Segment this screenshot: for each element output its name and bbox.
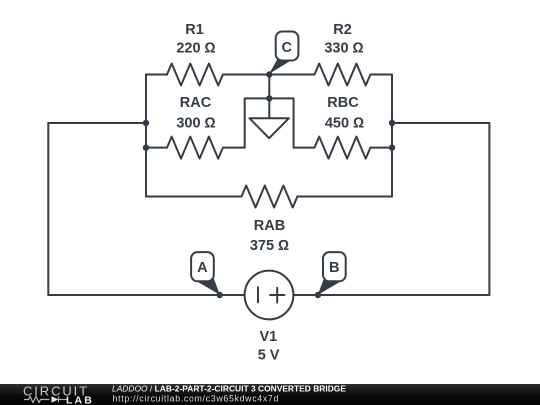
node dot left stub xyxy=(143,120,149,126)
node B box xyxy=(323,252,346,281)
voltage source V1 xyxy=(245,271,294,320)
wire RAB row xyxy=(146,196,392,198)
node dot right stub xyxy=(389,120,395,126)
wire branch under C xyxy=(245,98,294,147)
wire top row xyxy=(146,74,392,76)
resistor RAB xyxy=(242,186,298,208)
wire mid row right xyxy=(294,147,392,149)
node dot right mid xyxy=(389,144,395,150)
wire outer left vertical xyxy=(47,123,49,295)
logo diode xyxy=(52,396,59,402)
wire ground stem xyxy=(268,98,270,118)
wire outer right vertical xyxy=(488,123,490,295)
resistor R1 xyxy=(167,64,223,86)
svg-text:450 Ω: 450 Ω xyxy=(325,115,364,131)
svg-text:330 Ω: 330 Ω xyxy=(324,41,363,57)
node A pointer xyxy=(197,277,220,295)
node C box xyxy=(276,32,299,61)
ground xyxy=(249,118,289,138)
svg-text:V1: V1 xyxy=(260,329,278,345)
wire node C stem xyxy=(268,75,270,99)
svg-text:B: B xyxy=(329,260,339,276)
node A box xyxy=(191,252,214,281)
svg-text:A: A xyxy=(197,260,208,276)
wire bottom right xyxy=(294,294,490,296)
svg-text:RAB: RAB xyxy=(254,218,285,234)
node dot A xyxy=(217,292,223,298)
svg-text:LAB: LAB xyxy=(66,395,94,405)
svg-text:RAC: RAC xyxy=(180,95,212,111)
node C pointer xyxy=(269,58,291,74)
node dot C branch xyxy=(266,95,272,101)
svg-text:RBC: RBC xyxy=(327,95,359,111)
wire inner left vertical xyxy=(145,75,147,197)
resistor R2 xyxy=(315,64,371,86)
wire mid row left xyxy=(146,147,245,149)
svg-text:LADDOO / LAB-2-PART-2-CIRCUIT: LADDOO / LAB-2-PART-2-CIRCUIT 3 CONVERTE… xyxy=(112,384,346,394)
wire right stub xyxy=(392,122,489,124)
node B pointer xyxy=(318,277,341,295)
footer bar xyxy=(0,384,540,405)
svg-text:375 Ω: 375 Ω xyxy=(250,238,289,254)
wire left stub xyxy=(48,122,146,124)
svg-text:C: C xyxy=(282,40,293,56)
node dot C top xyxy=(266,71,272,77)
svg-text:R2: R2 xyxy=(333,22,352,38)
wire inner right vertical xyxy=(391,75,393,197)
wire bottom left xyxy=(48,294,244,296)
node dot left mid xyxy=(143,144,149,150)
logo schematic squiggle xyxy=(24,397,68,403)
svg-text:5 V: 5 V xyxy=(258,348,280,364)
svg-text:300 Ω: 300 Ω xyxy=(176,115,215,131)
resistor RBC xyxy=(315,137,371,159)
svg-text:R1: R1 xyxy=(185,22,204,38)
svg-text:http://circuitlab.com/c3w65kdw: http://circuitlab.com/c3w65kdwc4x7d xyxy=(113,394,280,404)
node dot B xyxy=(315,292,321,298)
svg-text:220 Ω: 220 Ω xyxy=(176,41,215,57)
resistor RAC xyxy=(167,137,223,159)
